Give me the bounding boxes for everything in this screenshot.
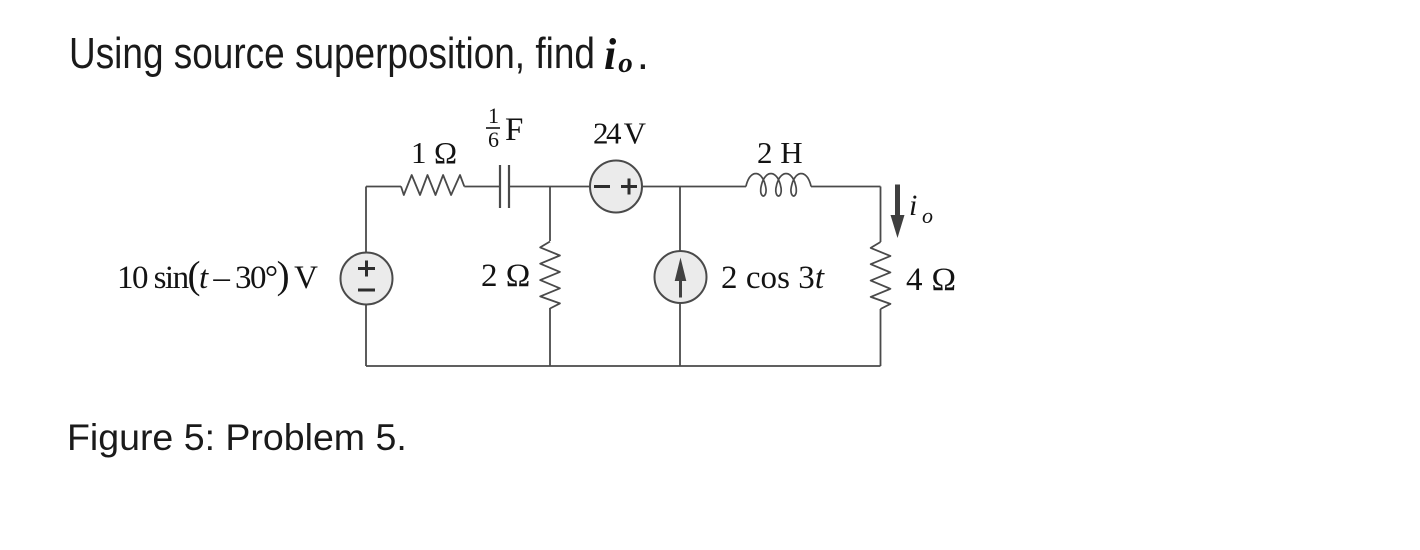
V1 minus sign <box>358 289 375 292</box>
svg-text:2 H: 2 H <box>757 135 803 170</box>
current source I1 circle <box>655 251 707 303</box>
resistor R 4ohm vertical <box>871 242 891 309</box>
current source branch wire upper <box>679 187 681 252</box>
resistor R 2ohm vertical <box>540 242 560 309</box>
current source arrow <box>675 258 687 298</box>
wire resistor to capacitor <box>464 186 499 188</box>
inductor L 2H <box>746 174 811 196</box>
svg-text:24 V: 24 V <box>593 116 647 151</box>
wire top-left horizontal <box>366 186 401 188</box>
right branch wire lower <box>880 309 882 366</box>
voltage source V2 24V circle <box>590 161 642 213</box>
svg-text:10 sin(t – 30°) V: 10 sin(t – 30°) V <box>117 254 318 297</box>
middle branch wire lower <box>549 308 551 366</box>
24V plus sign <box>621 179 637 195</box>
wire capacitor to 24V source <box>510 186 590 188</box>
right branch wire upper <box>880 187 882 243</box>
resistor R 1ohm horizontal <box>401 175 464 195</box>
capacitor C 1/6F plates <box>500 165 509 208</box>
title math io <box>604 29 649 80</box>
left branch wire lower <box>365 305 367 366</box>
middle branch wire upper <box>549 187 551 242</box>
wire inductor to corner <box>811 186 881 188</box>
svg-text:1 Ω: 1 Ω <box>411 135 457 170</box>
current source branch wire lower <box>679 303 681 366</box>
24V minus sign <box>594 185 610 188</box>
wire 24V source to top-right corner <box>642 186 746 188</box>
svg-text:o: o <box>922 203 933 228</box>
bottom wire <box>366 365 881 367</box>
title text <box>69 29 595 79</box>
svg-text:2 Ω: 2 Ω <box>481 258 530 294</box>
svg-text:1: 1 <box>488 103 499 128</box>
svg-text:F: F <box>505 112 523 148</box>
svg-text:4 Ω: 4 Ω <box>906 262 956 298</box>
svg-text:2 cos 3t: 2 cos 3t <box>721 260 825 296</box>
left branch wire upper <box>365 187 367 253</box>
svg-text:6: 6 <box>488 127 499 152</box>
caption <box>67 416 407 459</box>
voltage source V1 circle <box>341 253 393 305</box>
V1 plus sign <box>358 261 375 277</box>
io arrow <box>891 185 905 239</box>
svg-text:i: i <box>909 189 917 222</box>
